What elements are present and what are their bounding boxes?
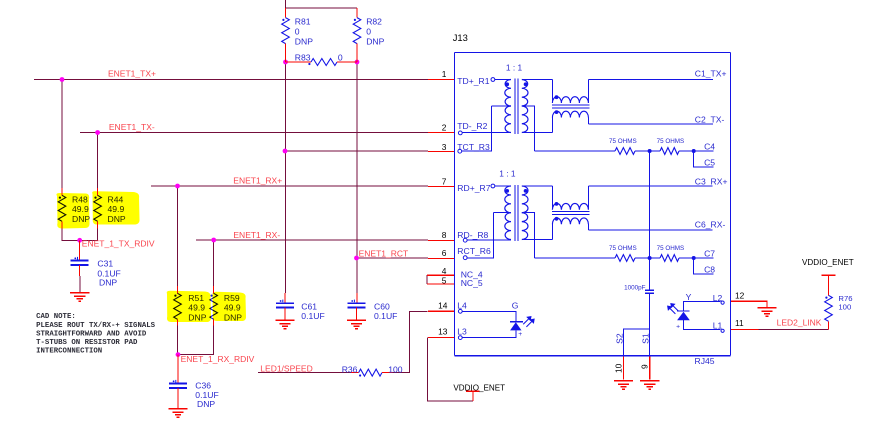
choke L-RX top winding <box>551 186 553 210</box>
svg-text:7: 7 <box>442 176 447 186</box>
transformer T1 primary bottom wire (TD-) <box>462 132 511 134</box>
highlight over R44 <box>92 191 139 224</box>
svg-text:DNP: DNP <box>366 36 384 46</box>
resistor 75 OHMS (TX row 1) <box>615 148 635 155</box>
wire R44 column <box>97 133 99 189</box>
transformer T2 secondary winding <box>522 186 528 213</box>
svg-text:14: 14 <box>438 300 448 310</box>
junction TCT rail / 1000pF column <box>648 149 652 153</box>
wire ENET1_RX- <box>196 239 428 241</box>
transformer T2 primary bottom wire (RD-) <box>467 239 511 241</box>
wire R82 column down to C60 <box>356 62 358 293</box>
wire R81 column down to C61 <box>285 62 287 293</box>
svg-text:VDDIO_ENET: VDDIO_ENET <box>802 258 854 267</box>
junction R83 right <box>355 60 360 65</box>
transformer T1 core <box>514 78 516 134</box>
junction RX_RDIV <box>176 352 181 357</box>
svg-text:C8: C8 <box>704 264 715 274</box>
junction C7/C8 <box>692 256 696 260</box>
svg-text:LED2_LINK: LED2_LINK <box>777 317 822 327</box>
svg-text:C7: C7 <box>704 249 715 259</box>
svg-text:100: 100 <box>838 303 851 312</box>
junction RX+/R51 <box>175 184 180 189</box>
transformer T1 secondary bottom wire <box>522 132 553 134</box>
highlight over R48 <box>56 193 89 229</box>
wire S2 jog <box>624 329 650 356</box>
junction TCT/C61 <box>283 149 288 154</box>
ground at pin 10 <box>614 380 633 382</box>
svg-text:RD-_R8: RD-_R8 <box>457 230 488 240</box>
net C7 <box>694 257 714 259</box>
resistor R36 <box>351 372 358 374</box>
svg-text:2: 2 <box>442 123 447 133</box>
transformer T1 secondary top wire <box>522 79 553 81</box>
junction RX-/R59 <box>211 238 216 243</box>
net C6_RX- <box>588 229 712 231</box>
LED Y emission arrows <box>668 304 679 314</box>
svg-text:8: 8 <box>442 230 447 240</box>
resistor 75 OHMS (RX row 1) <box>615 255 635 262</box>
transformer T1 secondary winding <box>522 80 528 107</box>
transformer T1 primary center tap <box>492 105 512 107</box>
svg-text:6: 6 <box>442 248 447 258</box>
svg-text:C6_RX-: C6_RX- <box>695 219 726 229</box>
pin 11 stub <box>731 329 759 331</box>
wire ENET_1_RX_RDIV node <box>178 326 214 355</box>
wire R48 column <box>61 80 63 189</box>
choke L-TX top winding <box>551 80 553 104</box>
pin 9 stub <box>649 356 651 380</box>
svg-text:Y: Y <box>686 292 692 302</box>
capacitor 1000pF <box>649 151 651 290</box>
transformer T1 secondary center tap to TCT rail <box>522 106 535 151</box>
svg-text:L3: L3 <box>457 327 467 337</box>
svg-text:75 OHMS: 75 OHMS <box>609 138 637 145</box>
wire top feed to R81/R82 <box>286 0 358 8</box>
wire pin 13 to VDDIO_ENET <box>428 338 473 401</box>
svg-text:RJ45: RJ45 <box>695 356 715 366</box>
transformer T2 primary winding <box>495 185 511 187</box>
pin 6 stub of J13 <box>428 258 455 260</box>
transformer T2 core <box>514 185 516 241</box>
wire ENET1_TX- <box>80 132 428 134</box>
svg-text:ENET1_TX+: ENET1_TX+ <box>108 69 156 79</box>
net C1_TX+ <box>588 79 713 81</box>
ground at pin 12 <box>757 307 776 309</box>
wire ENET1_RX+ <box>151 185 428 187</box>
svg-text:INTERCONNECTION: INTERCONNECTION <box>36 348 102 356</box>
power VDDIO_ENET (right, feeds R76) <box>822 274 836 276</box>
ground at pin 9 <box>640 380 659 382</box>
pin 12 stub to ground <box>731 301 768 308</box>
svg-text:C5: C5 <box>704 157 715 167</box>
svg-text:VDDIO_ENET: VDDIO_ENET <box>453 383 505 392</box>
svg-text:CAD NOTE:: CAD NOTE: <box>36 313 76 321</box>
svg-text:RCT_R6: RCT_R6 <box>457 246 491 256</box>
wire TCT rail to 75 ohm resistors <box>535 150 615 152</box>
resistor 75 OHMS (RX row 2) <box>660 255 679 262</box>
svg-text:0.1UF: 0.1UF <box>301 311 324 321</box>
svg-text:100: 100 <box>388 364 403 374</box>
pin 3 stub of J13 <box>428 151 455 153</box>
junction C4/C5 <box>692 149 696 153</box>
svg-text:T-STUBS ON RESISTOR PAD: T-STUBS ON RESISTOR PAD <box>36 339 138 347</box>
svg-text:1: 1 <box>442 69 447 79</box>
svg-text:0: 0 <box>366 26 371 36</box>
svg-text:R81: R81 <box>295 17 311 27</box>
svg-text:ENET_1_TX_RDIV: ENET_1_TX_RDIV <box>82 238 155 248</box>
svg-text:3: 3 <box>442 142 447 152</box>
transformer T2 secondary bottom wire <box>522 239 553 241</box>
svg-text:S2: S2 <box>615 333 625 344</box>
capacitor C31 <box>79 240 81 260</box>
power VDDIO_ENET (bottom middle) <box>466 390 479 392</box>
wire LED2_LINK <box>759 329 829 331</box>
svg-text:C36: C36 <box>195 380 211 390</box>
svg-text:1000pF: 1000pF <box>624 284 646 291</box>
svg-text:LED1/SPEED: LED1/SPEED <box>260 363 312 373</box>
svg-text:NC_5: NC_5 <box>461 278 483 288</box>
highlight over R51 <box>167 291 211 322</box>
choke L-TX bottom winding <box>552 111 588 117</box>
svg-text:R82: R82 <box>366 17 382 27</box>
net C8 <box>694 258 714 274</box>
capacitor C36 <box>177 355 179 384</box>
wire R51 column <box>177 186 179 286</box>
junction TX_RDIV <box>77 238 82 243</box>
svg-text:12: 12 <box>735 291 745 301</box>
wire R59 column <box>213 240 215 286</box>
transformer T2 primary center tap <box>493 212 511 214</box>
net C2_TX- <box>588 123 713 125</box>
ground below C31 <box>70 292 89 294</box>
transformer T2 secondary top wire <box>522 185 553 187</box>
svg-text:C1_TX+: C1_TX+ <box>695 68 727 78</box>
capacitor C61 <box>284 293 286 303</box>
choke L-RX core <box>552 211 590 213</box>
resistor R51 <box>177 286 179 293</box>
svg-text:10: 10 <box>614 363 624 373</box>
pin 13 stub of J13 <box>428 337 455 339</box>
junction RCT rail / 1000pF column <box>648 256 652 260</box>
highlight over R59 <box>212 292 246 321</box>
pin 10 stub <box>623 356 625 380</box>
svg-text:ENET1_RX+: ENET1_RX+ <box>233 175 282 185</box>
svg-text:75 OHMS: 75 OHMS <box>657 245 685 252</box>
svg-text:C60: C60 <box>374 302 390 312</box>
svg-text:4: 4 <box>442 266 447 276</box>
wire LED1/SPEED to R36 <box>258 372 351 374</box>
svg-text:11: 11 <box>735 318 744 328</box>
transformer T2 secondary center tap to RCT rail <box>522 213 535 258</box>
LED G emission arrows <box>523 317 534 327</box>
svg-text:9: 9 <box>640 364 650 369</box>
svg-text:13: 13 <box>438 327 448 337</box>
choke L-TX core <box>552 104 590 106</box>
pin 14 stub of J13 <box>428 310 455 312</box>
wire ENET1_TX+ <box>34 79 428 81</box>
resistor R76 <box>828 281 830 295</box>
net C4 <box>694 150 714 152</box>
svg-text:5: 5 <box>442 275 447 285</box>
svg-text:ENET1_RCT: ENET1_RCT <box>359 248 409 258</box>
svg-text:TCT_R3: TCT_R3 <box>457 142 490 152</box>
pin 5 stub of J13 <box>427 283 455 285</box>
pin 1 stub of J13 <box>428 79 455 81</box>
svg-text:1 : 1: 1 : 1 <box>499 168 516 178</box>
resistor R81 <box>285 8 287 18</box>
pin 2 stub of J13 <box>428 132 455 134</box>
svg-text:TD+_R1: TD+_R1 <box>457 76 489 86</box>
resistor 75 OHMS (TX row 2) <box>660 148 679 155</box>
svg-text:75 OHMS: 75 OHMS <box>657 138 685 145</box>
svg-text:ENET1_TX-: ENET1_TX- <box>109 122 155 132</box>
choke L-RX bottom winding <box>552 218 588 224</box>
svg-text:R36: R36 <box>342 364 358 374</box>
svg-text:+: + <box>518 331 522 338</box>
svg-text:0: 0 <box>338 52 343 62</box>
svg-text:R83: R83 <box>295 52 311 62</box>
svg-text:PLEASE ROUT TX/RX-+ SIGNALS: PLEASE ROUT TX/RX-+ SIGNALS <box>36 322 156 330</box>
transformer T1 primary winding <box>495 79 511 81</box>
svg-text:75 OHMS: 75 OHMS <box>609 245 637 252</box>
capacitor C60 <box>356 293 358 303</box>
resistor R59 <box>213 286 215 293</box>
resistor R82 <box>356 8 358 18</box>
pin 7 stub of J13 <box>428 186 455 188</box>
svg-text:0: 0 <box>295 26 300 36</box>
junction TX+/R48 <box>60 77 65 82</box>
pin 4 stub of J13 <box>427 274 455 276</box>
net C5 <box>694 151 714 167</box>
junction RCT/C60 <box>354 256 359 261</box>
wire ENET1_RCT to pin 6 <box>357 257 429 259</box>
wire C31 lower lead <box>79 276 81 293</box>
ground below C60 <box>347 319 366 321</box>
resistor R48 <box>61 188 63 195</box>
svg-text:C2_TX-: C2_TX- <box>695 115 725 125</box>
svg-text:L1: L1 <box>713 320 723 330</box>
svg-text:DNP: DNP <box>99 277 117 287</box>
wire R36 to pin 14 <box>392 311 427 372</box>
svg-text:DNP: DNP <box>197 399 215 409</box>
svg-text:S1: S1 <box>641 333 651 344</box>
resistor R44 <box>97 188 99 195</box>
connector J13 (RJ45 with magnetics) box <box>455 52 731 54</box>
svg-text:0.1UF: 0.1UF <box>374 311 397 321</box>
svg-text:J13: J13 <box>453 32 468 43</box>
svg-text:STRAIGHTFORWARD AND AVOID: STRAIGHTFORWARD AND AVOID <box>36 330 147 338</box>
svg-text:L4: L4 <box>457 300 467 310</box>
svg-text:+: + <box>676 323 680 330</box>
ground below C61 <box>275 319 294 321</box>
svg-text:ENET1_RX-: ENET1_RX- <box>233 230 280 240</box>
wire RCT rail to 75 ohm resistors <box>535 257 615 259</box>
svg-text:C61: C61 <box>301 302 317 312</box>
svg-text:TD-_R2: TD-_R2 <box>457 121 487 131</box>
wire ENET_1_TX_RDIV node <box>62 229 98 241</box>
svg-text:C4: C4 <box>704 142 715 152</box>
svg-text:DNP: DNP <box>295 36 313 46</box>
net C3_RX+ <box>588 185 712 187</box>
ground below C36 <box>168 408 187 410</box>
resistor R83 <box>286 61 312 63</box>
wire TCT to pin 3 <box>285 150 428 152</box>
svg-text:C3_RX+: C3_RX+ <box>695 176 728 186</box>
svg-text:G: G <box>512 300 519 310</box>
svg-text:1 : 1: 1 : 1 <box>506 62 523 72</box>
svg-text:RD+_R7: RD+_R7 <box>457 183 490 193</box>
junction TX-/R44 <box>95 130 100 135</box>
svg-text:C31: C31 <box>97 259 113 269</box>
junction R83 left <box>283 60 288 65</box>
wire NC_4 NC_5 loop <box>426 275 428 284</box>
pin 8 stub of J13 <box>428 240 455 242</box>
svg-text:ENET_1_RX_RDIV: ENET_1_RX_RDIV <box>181 354 255 364</box>
